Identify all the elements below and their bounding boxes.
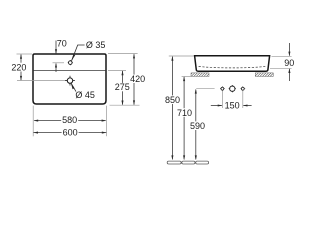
- svg-text:90: 90: [284, 58, 294, 68]
- drain centerline: [17, 80, 67, 82]
- svg-text:600: 600: [63, 127, 78, 137]
- dimension 220: [10, 54, 32, 81]
- svg-text:Ø 35: Ø 35: [86, 40, 106, 50]
- leader Ø35: [72, 45, 85, 61]
- leader Ø45: [71, 83, 76, 92]
- tap hole center: [229, 85, 236, 92]
- faucet hole: [68, 60, 73, 65]
- dimension 710: [176, 76, 193, 160]
- bowl hidden dashed line: [199, 66, 266, 68]
- svg-text:850: 850: [165, 95, 180, 105]
- svg-text:580: 580: [62, 115, 77, 125]
- dimension 850: [164, 56, 194, 160]
- right mounting hatch: [255, 73, 273, 77]
- svg-text:420: 420: [130, 74, 145, 84]
- svg-text:220: 220: [11, 62, 26, 72]
- svg-text:Ø 45: Ø 45: [75, 90, 95, 100]
- svg-text:150: 150: [225, 101, 240, 111]
- dimension 70: [53, 39, 67, 72]
- floor tiles: [167, 161, 208, 164]
- basin top view outline: [33, 54, 106, 104]
- basin front view outline: [195, 56, 270, 71]
- tap hole right: [240, 86, 245, 91]
- left mounting hatch: [191, 73, 209, 77]
- drain hole: [65, 76, 75, 86]
- dimension 590: [189, 89, 215, 160]
- svg-text:70: 70: [57, 39, 67, 49]
- tap hole left: [220, 86, 225, 91]
- svg-text:590: 590: [190, 121, 205, 131]
- dimension 580: [34, 115, 107, 125]
- dimension 150: [211, 91, 252, 111]
- dimension 420: [108, 54, 147, 106]
- basin rim ledge line: [34, 70, 106, 72]
- svg-text:710: 710: [177, 108, 192, 118]
- dimension 90: [270, 43, 295, 81]
- dimension 600: [33, 127, 106, 137]
- bottom extension lines: [32, 106, 34, 137]
- svg-text:275: 275: [115, 82, 130, 92]
- dimension 275: [108, 71, 131, 106]
